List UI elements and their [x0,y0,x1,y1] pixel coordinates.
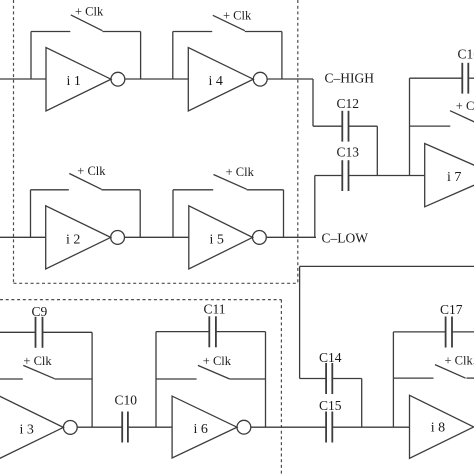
wire: i2 feedback left vertical [30,190,32,238]
switch blade of i3 [23,365,54,378]
wire: i1 feedback top right segment [102,31,140,33]
switch blade of i4 [213,15,245,30]
wire: input to i1 [0,78,46,80]
svg-text:C–HIGH: C–HIGH [325,70,375,85]
svg-text:i 3: i 3 [20,422,34,437]
wire: i5 feedback top right segment [247,189,284,191]
svg-text:+ Clk: + Clk [77,164,106,178]
wire: i7 feedback vertical [409,78,411,175]
svg-text:C–LOW: C–LOW [322,230,369,245]
bubble of i1 [111,72,125,86]
inverter i5 [189,206,253,269]
capacitor C16 [458,47,474,94]
wire: C12 left lead [313,125,342,127]
wire: C12 right lead [349,125,378,127]
svg-text:i 1: i 1 [67,74,81,89]
wire: i2 feedback top left segment [31,189,69,191]
wire: junction vertical C12 to summing node [376,126,378,175]
capacitor C14 [319,350,342,394]
wire: i4 output (C-HIGH net) [267,78,313,80]
wire: i1 feedback top left segment [31,31,70,33]
inverter i1 [46,48,111,111]
wire: vertical down to C14 [299,266,301,378]
switch blade of i5 [214,175,247,190]
svg-text:i 7: i 7 [447,170,461,185]
inverter i3 [0,396,63,459]
capacitor C12 [337,96,360,141]
svg-text:+ Clk: + Clk [226,165,255,179]
wire: i5 feedback right vertical [283,190,285,238]
bubble of i6 [237,420,251,434]
wire: i5 output (C-LOW net) [266,236,316,238]
wire: C10 right lead to i6 input [128,426,172,428]
wire: i8 feedback vertical [392,332,394,427]
wire: i1 output to i4 input [125,78,189,80]
wire: i4 feedback right vertical [281,32,283,80]
wire: i1 feedback left vertical [30,32,32,80]
svg-text:C9: C9 [32,304,48,319]
svg-text:C10: C10 [115,393,138,408]
dashed box 1 bottom edge [14,282,298,284]
wire: C-LOW vertical up to C13 [314,176,316,238]
bubble of i5 [253,231,267,245]
wire: C-HIGH vertical down to C12 [312,79,314,126]
wire: i2 feedback right vertical [139,190,141,238]
switch blade of i8 [435,365,466,379]
wire: C11 left lead [156,331,209,333]
capacitor C11 [204,302,226,348]
wire: i3 feedback right vertical [91,332,93,427]
svg-text:+ Clk: + Clk [75,5,104,19]
dashed box 2 right edge [280,300,282,474]
svg-text:+ Clk: + Clk [223,8,252,22]
svg-text:i 5: i 5 [210,232,224,247]
svg-text:i 4: i 4 [209,74,223,89]
bubble of i4 [253,72,267,86]
wire: i1 feedback right vertical [140,32,142,80]
wire: i6 switch right lead [229,378,265,380]
wire: i4 feedback top right segment [245,31,282,33]
wire: C16 right lead [468,77,474,79]
wire: i7 switch left lead [410,125,451,127]
capacitor C13 [337,145,360,192]
svg-text:C17: C17 [440,302,463,317]
inverter i6 [172,396,237,458]
dashed box 1 right edge [297,0,299,283]
wire: C11 right lead [216,331,266,333]
wire: return line from i7 output (right edge) [300,265,474,267]
svg-text:i 6: i 6 [194,422,208,437]
capacitor C10 [115,393,138,443]
switch blade of i1 [71,15,103,31]
dashed box 1 left edge [13,0,15,283]
capacitor C9 [32,304,48,348]
svg-text:C13: C13 [337,145,360,160]
wire: i2 feedback top right segment [102,189,141,191]
svg-text:C16: C16 [458,47,474,62]
svg-text:+ Clk: + Clk [456,99,474,113]
svg-text:i 2: i 2 [66,232,80,247]
wire: C9 right lead [43,331,93,333]
wire: i5 feedback top left segment [173,189,213,191]
switch blade of i6 [198,365,230,379]
wire: C17 left lead [393,331,445,333]
wire: C14 left lead [300,378,327,380]
wire: C14 right lead [332,378,361,380]
svg-text:i 8: i 8 [431,421,445,436]
wire: i6 output to C15 [251,426,326,428]
wire: C13 right lead to i7 input [349,175,425,177]
svg-text:C12: C12 [337,96,360,111]
wire: i2 output to i5 input [125,236,189,238]
wire: i5 feedback left vertical [172,190,174,238]
wire: C16 left lead [410,77,463,79]
wire: C17 right lead [452,331,474,333]
wire: i3 switch left lead [0,378,23,380]
wire: C15 right lead to i8 input [332,426,409,428]
wire: junction vertical C14 to i8 input [361,379,363,428]
wire: C13 left lead [315,175,343,177]
switch blade of i7 [450,111,474,123]
inverter i8 [410,395,474,458]
wire: i6 switch left lead [156,378,197,380]
switch blade of i2 [69,174,101,190]
inverter i2 [46,206,111,269]
wire: i4 feedback top left segment [173,31,212,33]
bubble of i2 [111,231,125,245]
inverter i7 [425,144,474,207]
wire: input to i2 [0,236,46,238]
svg-text:+ Clk: + Clk [23,354,52,368]
capacitor C15 [319,398,342,443]
capacitor C17 [440,302,463,347]
wire: i6 feedback right vertical [265,332,267,428]
wire: i8 switch right lead [467,377,474,379]
bubble of i3 [63,421,77,435]
wire: i3 output to C10 [77,426,122,428]
wire: C9 left lead [0,331,36,333]
wire: i6 feedback left vertical [155,332,157,428]
wire: i3 switch right lead [55,378,93,380]
wire: i4 feedback left vertical [172,32,174,80]
wire: i8 switch left lead [393,377,433,379]
svg-text:+ Clk.: + Clk. [445,353,474,367]
svg-text:C11: C11 [204,302,226,317]
svg-text:C15: C15 [319,398,342,413]
svg-text:C14: C14 [319,350,342,365]
inverter i4 [188,48,253,111]
svg-text:+ Clk: + Clk [203,354,232,368]
dashed box 2 top edge [0,299,281,301]
